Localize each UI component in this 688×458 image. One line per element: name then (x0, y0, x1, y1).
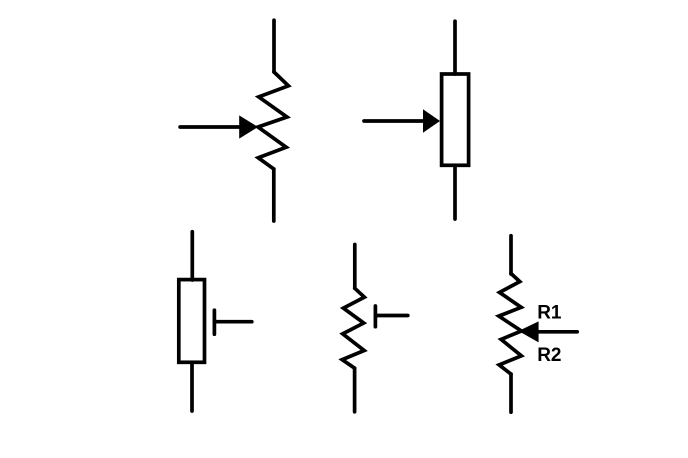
wiper arrowhead (239, 115, 258, 138)
tap T-bar (213, 310, 217, 334)
resistor zigzag body (499, 274, 522, 375)
wire top terminal 1 (509, 236, 513, 274)
wire bottom terminal 2 (190, 362, 194, 411)
svg-text:R1: R1 (537, 302, 562, 323)
wire top terminal 1 (353, 245, 357, 289)
wire tap lead (375, 314, 407, 318)
wiper arrowhead (519, 321, 539, 342)
wiper arrowhead (423, 109, 440, 132)
wire top terminal 1 (453, 21, 457, 74)
wire bottom terminal 2 (353, 368, 357, 412)
wire bottom terminal 2 (272, 169, 276, 221)
resistor rectangle body (442, 74, 469, 165)
resistor zigzag body (258, 72, 288, 169)
wire wiper lead (180, 125, 240, 129)
wire wiper lead (538, 330, 577, 334)
wire top terminal 1 (190, 232, 194, 280)
wire bottom terminal 2 (509, 374, 513, 412)
wire top terminal 1 (272, 20, 276, 72)
resistor rectangle body (179, 280, 205, 363)
svg-text:R2: R2 (537, 345, 561, 366)
wire bottom terminal 2 (453, 165, 457, 219)
wire tap lead (214, 320, 251, 324)
resistor zigzag body (342, 288, 364, 368)
tap T-bar (374, 306, 378, 327)
wire wiper lead (364, 119, 424, 123)
